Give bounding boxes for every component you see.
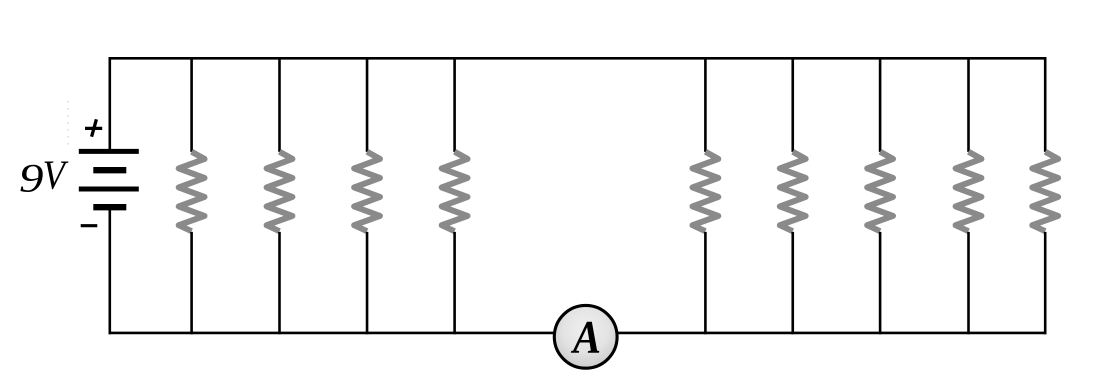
resistor R6 branch: [780, 57, 806, 334]
svg-text:9: 9: [19, 155, 44, 200]
resistor R6 zigzag body: [780, 152, 806, 232]
battery B1 plate short bottom: [93, 204, 126, 210]
faint dotted guide line: [67, 101, 69, 150]
resistor R5 branch: [693, 57, 719, 334]
wire R5 top lead: [704, 57, 707, 152]
battery B1 plate long top: [79, 149, 139, 154]
svg-text:A: A: [570, 313, 601, 364]
label - (battery negative): [81, 224, 98, 227]
wire R1 top lead: [190, 57, 193, 152]
resistor R5 zigzag body: [693, 152, 719, 232]
wire R4 bottom lead: [453, 232, 456, 334]
resistor R2 branch: [267, 57, 293, 334]
wire R1 bottom lead: [190, 232, 193, 334]
resistor R3 branch: [354, 57, 380, 334]
resistor R9 branch (right edge): [1032, 57, 1058, 334]
wire R9 bottom lead: [1044, 232, 1047, 334]
wire R5 bottom lead: [704, 232, 707, 334]
resistor R1 zigzag body: [179, 152, 205, 232]
resistor R1 branch: [179, 57, 205, 334]
wire bottom bus: [109, 332, 1047, 335]
resistor R8 zigzag body: [956, 152, 982, 232]
wire R8 bottom lead: [967, 232, 970, 334]
resistor R3 zigzag body: [354, 152, 380, 232]
wire R6 bottom lead: [791, 232, 794, 334]
ammeter A1 circle: [554, 305, 617, 368]
wire R7 top lead: [879, 57, 882, 152]
wire R2 bottom lead: [278, 232, 281, 334]
battery B1 plate long: [79, 187, 139, 192]
resistor R4 zigzag body: [442, 152, 468, 232]
resistor R7 zigzag body: [867, 152, 893, 232]
resistor R7 branch: [867, 57, 893, 334]
wire R2 top lead: [278, 57, 281, 152]
resistor R2 zigzag body: [267, 152, 293, 232]
wire R9 top lead: [1044, 57, 1047, 152]
label + (battery positive): [85, 119, 102, 136]
resistor R4 branch: [442, 57, 468, 334]
wire R3 top lead: [366, 57, 369, 152]
wire R4 top lead: [453, 57, 456, 152]
wire R6 top lead: [791, 57, 794, 152]
resistor R8 branch: [956, 57, 982, 334]
wire R7 bottom lead: [879, 232, 882, 334]
battery B1 plate short: [93, 167, 126, 173]
wire R3 bottom lead: [366, 232, 369, 334]
wire top bus: [109, 57, 1047, 60]
wire left branch upper (battery top lead): [109, 57, 112, 151]
wire left branch lower (battery bottom lead): [109, 207, 112, 334]
resistor R9 zigzag body: [1032, 152, 1058, 232]
wire R8 top lead: [967, 57, 970, 152]
